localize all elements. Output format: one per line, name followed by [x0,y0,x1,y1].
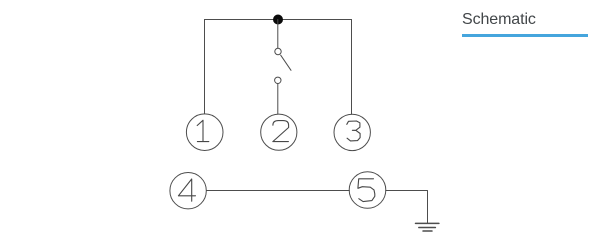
ground bar 1 [416,222,439,224]
switch SW1 blade [281,55,291,70]
pin 1 digit [197,120,209,141]
ground bar 2 [419,227,436,229]
pin circle 1 [186,114,223,151]
pin 3 digit [347,121,360,141]
pin circle 2 [261,114,297,150]
heading underline [462,34,588,37]
junction dot [273,15,283,25]
wire pin 5 to ground [386,191,428,224]
heading Schematic [462,11,536,29]
pin 5 digit [358,179,375,202]
pin 2 digit [273,121,289,142]
ground bar 3 [423,230,432,232]
wire right vertical to pin 3 [351,20,353,115]
pin circle 5 [349,172,386,209]
pin circle 3 [334,114,370,150]
switch SW1 contact B [275,77,281,83]
switch SW1 contact A [275,48,281,54]
wire pin 4 to pin 5 [207,190,350,192]
pin circle 4 [170,173,206,209]
wire left vertical to pin 1 [204,20,206,114]
pin 4 digit [178,179,195,201]
wire junction to switch [277,20,279,49]
wire switch to pin 2 [277,84,279,114]
wire top horizontal [205,19,352,21]
